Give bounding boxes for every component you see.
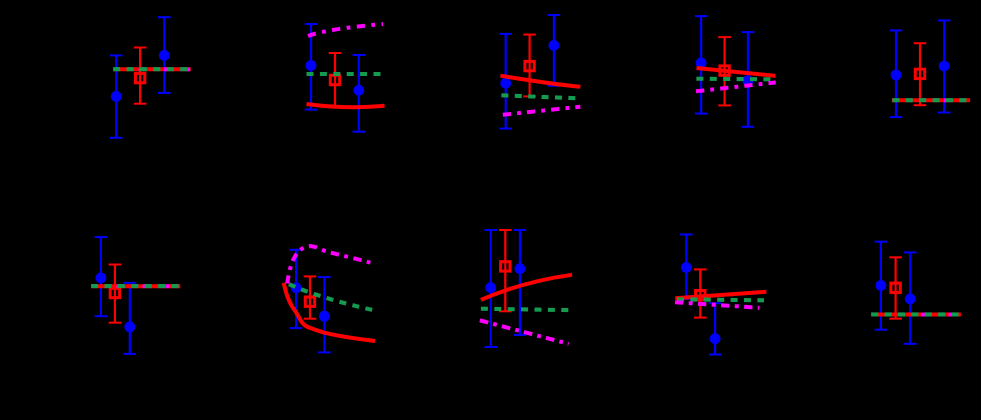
magenta dash-dot model slivers P6 xyxy=(117,284,170,288)
blue data point P3-B2 marker xyxy=(549,40,560,51)
blue data point P2-B2 marker xyxy=(353,85,364,96)
blue data point P8-B2 error bar xyxy=(514,230,527,335)
green dashed model line P3 xyxy=(501,95,577,98)
red data point P10-R1 open square marker xyxy=(891,283,900,292)
green dashed model line P2 xyxy=(307,72,384,76)
red data point P8-R1 error bar xyxy=(499,230,512,311)
blue data point P5-B1 marker xyxy=(891,70,902,81)
red solid model line P5 xyxy=(892,98,970,102)
blue data point P6-B1 error bar xyxy=(95,237,108,316)
blue data point P4-B2 error bar xyxy=(742,32,755,127)
blue data point P6-B2 error bar xyxy=(124,283,137,354)
blue data point P7-B2 error bar xyxy=(318,277,331,352)
magenta dash-dot model curve P7 xyxy=(287,246,372,283)
magenta dash-dot model curve P2 xyxy=(308,24,383,36)
red data point P2-R1 error bar xyxy=(329,53,342,106)
blue data point P5-B2 marker xyxy=(939,61,950,72)
blue data point P8-B1 error bar xyxy=(484,230,497,347)
blue data point P9-B1 error bar xyxy=(680,235,693,300)
red data point P5-R1 open square marker xyxy=(915,69,924,78)
blue data point P7-B1 error bar xyxy=(290,250,303,328)
red data point P3-R1 open square marker xyxy=(525,61,534,70)
blue data point P1-B2 marker xyxy=(159,50,170,61)
blue data point P10-B2 marker xyxy=(905,294,916,305)
red solid model curve P8 xyxy=(481,275,572,300)
blue data point P9-B1 marker xyxy=(681,262,692,273)
blue data point P5-B1 error bar xyxy=(890,30,903,117)
red solid model line P4 xyxy=(697,68,776,76)
red data point P1-R1 open square marker xyxy=(135,73,144,82)
red data point P9-R1 open square marker xyxy=(696,291,705,300)
red data point P5-R1 error bar xyxy=(914,43,927,105)
blue data point P10-B1 error bar xyxy=(875,242,888,330)
blue data point P1-B1 marker xyxy=(111,91,122,102)
magenta dash-dot model line P9 xyxy=(675,302,759,308)
red solid model line P9 xyxy=(675,292,766,299)
red data point P4-R1 error bar xyxy=(718,37,731,105)
red data point P4-R1 open square marker xyxy=(720,66,729,75)
blue data point P2-B1 error bar xyxy=(305,24,318,110)
red solid model curve P2 xyxy=(307,104,385,107)
green dashed model line P4 xyxy=(696,77,771,82)
red data point P1-R1 error bar xyxy=(134,48,147,104)
red data point P7-R1 open square marker xyxy=(305,297,314,306)
blue data point P10-B1 marker xyxy=(876,280,887,291)
red data point P8-R1 open square marker xyxy=(501,262,510,271)
blue data point P5-B2 error bar xyxy=(938,20,951,112)
magenta dash-dot model sliver P5 xyxy=(944,98,947,102)
magenta dash-dot model slivers P1 xyxy=(139,67,190,71)
red data point P10-R1 error bar xyxy=(889,257,902,318)
green dashed model line P1 xyxy=(113,67,190,71)
red data point P7-R1 error bar xyxy=(304,276,317,318)
magenta dash-dot model line P3 xyxy=(503,107,581,115)
blue data point P8-B1 marker xyxy=(485,282,496,293)
blue data point P4-B2 marker xyxy=(743,75,754,86)
red solid model line P6 xyxy=(91,284,180,288)
red solid model curve P3 xyxy=(500,76,580,87)
blue data point P4-B1 marker xyxy=(696,58,707,69)
blue data point P6-B2 marker xyxy=(124,322,135,333)
red data point P2-R1 open square marker xyxy=(330,75,339,84)
green dashed model line P10 xyxy=(871,312,958,316)
green dashed model curve P7 xyxy=(289,284,377,311)
green dashed model line P8 xyxy=(481,309,569,310)
red solid model line P10 xyxy=(871,313,961,317)
magenta dash-dot model line P4 xyxy=(696,82,776,91)
red data point P6-R1 open square marker xyxy=(110,288,119,297)
red solid model line P1 xyxy=(113,67,191,71)
magenta dash-dot model slivers P10 xyxy=(921,313,952,317)
red solid model curve P7 xyxy=(284,283,375,341)
magenta dash-dot model line P8 xyxy=(480,320,569,344)
blue data point P3-B2 error bar xyxy=(548,15,561,86)
red data point P6-R1 error bar xyxy=(109,265,122,323)
red data point P9-R1 error bar xyxy=(694,269,707,317)
blue data point P9-B2 error bar xyxy=(709,303,722,354)
blue data point P3-B1 error bar xyxy=(499,34,512,129)
blue data point P4-B1 error bar xyxy=(695,16,708,114)
blue data point P3-B1 marker xyxy=(500,78,511,89)
blue data point P1-B2 error bar xyxy=(158,17,171,93)
blue data point P9-B2 marker xyxy=(710,333,721,344)
blue data point P6-B1 marker xyxy=(96,272,107,283)
blue data point P2-B1 marker xyxy=(306,60,317,71)
blue data point P1-B1 error bar xyxy=(110,55,123,137)
blue data point P7-B1 marker xyxy=(291,282,302,293)
blue data point P10-B2 error bar xyxy=(904,252,917,343)
green dashed model line P5 xyxy=(892,98,966,102)
blue data point P7-B2 marker xyxy=(319,311,330,322)
green dashed model line P6 xyxy=(91,284,180,288)
red data point P3-R1 error bar xyxy=(523,35,536,97)
blue data point P2-B2 error bar xyxy=(353,55,366,132)
blue data point P8-B2 marker xyxy=(515,263,526,274)
green dashed model line P9 xyxy=(677,299,764,300)
